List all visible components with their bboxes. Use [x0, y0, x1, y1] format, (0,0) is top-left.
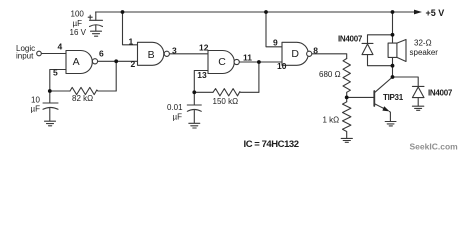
- svg-text:C: C: [218, 56, 226, 68]
- wire speaker drop: [392, 12, 394, 43]
- capacitor C 10uF: [43, 102, 58, 104]
- svg-text:+5 V: +5 V: [426, 8, 445, 18]
- wire emitter diagonal: [374, 104, 386, 110]
- ground below 100uF: [91, 31, 102, 36]
- svg-text:IN4007: IN4007: [338, 34, 363, 43]
- node C input RC: [192, 90, 196, 94]
- svg-text:µF: µF: [31, 104, 41, 113]
- svg-text:speaker: speaker: [410, 48, 439, 57]
- gate C: [208, 51, 234, 74]
- wire feedback riser to A output: [115, 61, 117, 91]
- svg-text:4: 4: [58, 42, 63, 52]
- arrow +5V: [414, 10, 422, 15]
- gate D: [282, 42, 308, 65]
- wire base wire to TIP31: [347, 96, 375, 98]
- terminal logic input: [37, 51, 42, 56]
- svg-text:µF: µF: [173, 113, 183, 122]
- ground below 1k: [341, 138, 352, 142]
- gate B: [138, 42, 164, 65]
- svg-text:1 kΩ: 1 kΩ: [323, 115, 340, 124]
- capacitor C 100uF: [90, 19, 103, 21]
- node A input RC: [48, 89, 52, 93]
- svg-text:µF: µF: [73, 19, 83, 28]
- speaker horn: [397, 40, 406, 62]
- wire cap100 drop from rail: [95, 12, 97, 20]
- wire +5V top rail: [96, 11, 415, 13]
- wire A pin5 to junction: [50, 70, 66, 92]
- svg-text:10: 10: [31, 95, 40, 104]
- wire C feedback rail: [194, 91, 213, 93]
- svg-text:B: B: [148, 49, 155, 61]
- wire B output to C pin12: [169, 53, 208, 55]
- svg-text:10: 10: [277, 61, 287, 71]
- ground below 10uF: [45, 121, 56, 126]
- wire B pin1 drop: [123, 12, 138, 45]
- ground below 0.01uF: [189, 123, 200, 128]
- wire diode1 bottom wire: [368, 55, 393, 66]
- svg-text:IC = 74HC132: IC = 74HC132: [244, 139, 299, 150]
- wire collector diagonal: [374, 77, 392, 93]
- svg-text:32-Ω: 32-Ω: [414, 38, 432, 47]
- ground below emitter: [385, 122, 396, 126]
- wire A feedback rail bottom: [50, 90, 70, 92]
- svg-text:13: 13: [197, 70, 207, 80]
- node A out: [114, 59, 118, 63]
- capacitor C 0.01uF: [187, 104, 201, 106]
- svg-text:0.01: 0.01: [167, 103, 183, 112]
- wire emitter down: [389, 111, 390, 121]
- svg-text:1: 1: [129, 36, 134, 46]
- node rail-D9: [264, 10, 268, 14]
- wire C output to D pin10: [239, 61, 282, 63]
- wire speaker line middle: [392, 58, 394, 78]
- svg-text:D: D: [291, 48, 299, 60]
- svg-text:16 V: 16 V: [70, 28, 87, 37]
- svg-text:3: 3: [172, 45, 177, 55]
- transistor TIP31: [373, 91, 375, 106]
- svg-text:SeekIC.com: SeekIC.com: [410, 142, 459, 152]
- wire 10uF drop: [49, 91, 51, 103]
- node diode1 bottom: [391, 64, 395, 68]
- ground below diode2: [412, 106, 423, 110]
- svg-text:6: 6: [99, 49, 104, 59]
- wire diode2 tap: [393, 77, 419, 86]
- svg-text:150 kΩ: 150 kΩ: [213, 97, 239, 106]
- wire 0.01uF drop: [193, 92, 195, 105]
- wire D output to 680: [312, 54, 347, 59]
- node base: [345, 96, 349, 100]
- wire C pin13 to junction: [194, 71, 208, 93]
- svg-text:12: 12: [199, 42, 209, 52]
- wire diode1 top wire: [368, 35, 393, 44]
- node rail-B1: [121, 10, 125, 14]
- gate A: [66, 51, 92, 74]
- node rail-speaker: [391, 10, 395, 14]
- node collector: [391, 75, 395, 79]
- wire diode2 to ground: [417, 98, 419, 106]
- diode D1 IN4007: [362, 42, 373, 44]
- resistor R 1k vertical: [343, 102, 351, 138]
- wire logic input to A pin4: [41, 53, 66, 55]
- resistor R 680 vertical: [343, 59, 350, 98]
- wire A output to B pin2: [98, 60, 138, 62]
- svg-text:11: 11: [243, 53, 252, 63]
- wire C feedback riser: [258, 62, 260, 92]
- resistor R 82k: [70, 87, 116, 94]
- svg-text:TIP31: TIP31: [383, 93, 404, 102]
- speaker rectangle: [388, 43, 397, 57]
- svg-text:82 kΩ: 82 kΩ: [72, 94, 93, 103]
- svg-text:8: 8: [313, 45, 318, 55]
- wire to 1k: [346, 97, 348, 101]
- diode D2 IN4007: [412, 85, 424, 87]
- wire D pin9 drop: [266, 12, 282, 47]
- svg-text:input: input: [16, 52, 34, 61]
- node diode1 top: [391, 33, 395, 37]
- svg-text:2: 2: [131, 59, 136, 69]
- svg-text:IN4007: IN4007: [428, 88, 453, 97]
- svg-text:A: A: [73, 56, 80, 68]
- plus sign 100uF: [88, 15, 92, 19]
- svg-text:100: 100: [71, 10, 85, 19]
- svg-text:9: 9: [273, 37, 278, 47]
- svg-text:680 Ω: 680 Ω: [319, 70, 341, 79]
- node C out: [257, 60, 261, 64]
- resistor R 150k: [213, 89, 259, 96]
- svg-text:5: 5: [53, 68, 58, 78]
